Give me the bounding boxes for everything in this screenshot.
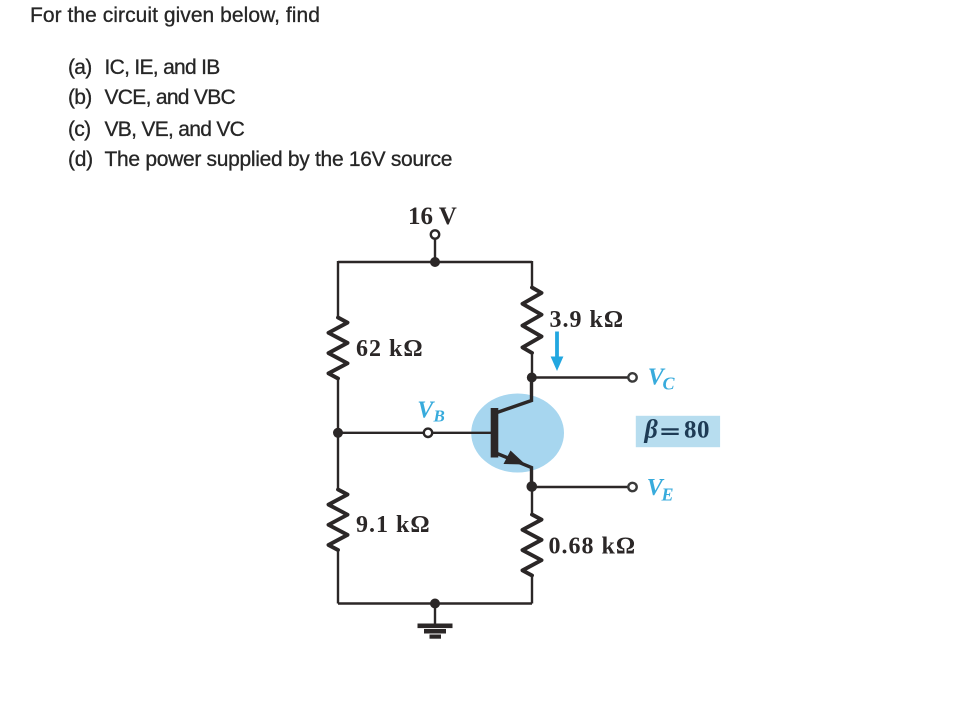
svg-text:β: β xyxy=(644,415,659,444)
wire: left branch upper xyxy=(337,261,339,318)
svg-text:9.1 kΩ: 9.1 kΩ xyxy=(356,512,431,538)
svg-text:0.68 kΩ: 0.68 kΩ xyxy=(549,534,637,560)
wire: collector feed xyxy=(531,353,533,378)
junction dot at base node xyxy=(333,428,343,438)
item (b) xyxy=(68,87,235,108)
resistor R4 0.68 kOhm xyxy=(523,515,542,576)
resistor R1 62 kOhm xyxy=(329,318,348,379)
transistor Q1 emitter arrowhead xyxy=(504,451,526,465)
wire: collector output xyxy=(532,376,628,378)
junction dot at emitter node xyxy=(527,481,538,492)
wire: bottom rail xyxy=(338,602,532,604)
wire: right branch lower xyxy=(531,576,533,604)
svg-text:E: E xyxy=(661,485,674,505)
svg-text:B: B xyxy=(433,407,445,426)
ground xyxy=(434,604,436,625)
wire: top rail xyxy=(338,261,532,263)
terminal circle VE xyxy=(628,483,636,491)
beta box xyxy=(636,416,720,447)
wire: left branch middle xyxy=(337,379,339,490)
wire: right branch upper xyxy=(531,261,533,288)
item (d) xyxy=(68,149,452,170)
wire: base xyxy=(338,432,492,434)
wire: emitter output xyxy=(532,486,628,488)
junction dot at collector node xyxy=(527,373,537,383)
svg-text:3.9 kΩ: 3.9 kΩ xyxy=(550,307,625,333)
item (a) xyxy=(68,57,220,78)
transistor Q1 highlight circle xyxy=(471,394,564,473)
transistor Q1 base bar xyxy=(491,408,499,458)
resistor R2 9.1 kOhm xyxy=(329,490,348,551)
question heading xyxy=(30,5,320,26)
svg-text:62 kΩ: 62 kΩ xyxy=(356,336,424,362)
wire: left branch lower xyxy=(337,550,339,604)
svg-text:16 V: 16 V xyxy=(408,203,457,230)
junction dot at ground node xyxy=(430,599,440,609)
svg-text:80: 80 xyxy=(684,417,710,444)
junction dot at top rail xyxy=(430,257,440,267)
transistor Q1 emitter lead xyxy=(497,454,532,487)
svg-text:C: C xyxy=(663,374,676,394)
resistor R3 3.9 kOhm xyxy=(523,288,542,353)
terminal circle VB xyxy=(424,429,432,437)
terminal circle VC xyxy=(628,373,636,381)
item (c) xyxy=(68,119,244,140)
16V source terminal circle xyxy=(431,230,439,238)
transistor Q1 collector lead xyxy=(497,378,532,413)
current arrow (blue, into collector node) xyxy=(555,332,559,359)
wire: source stub xyxy=(434,239,436,262)
wire: emitter to resistor xyxy=(531,487,533,516)
